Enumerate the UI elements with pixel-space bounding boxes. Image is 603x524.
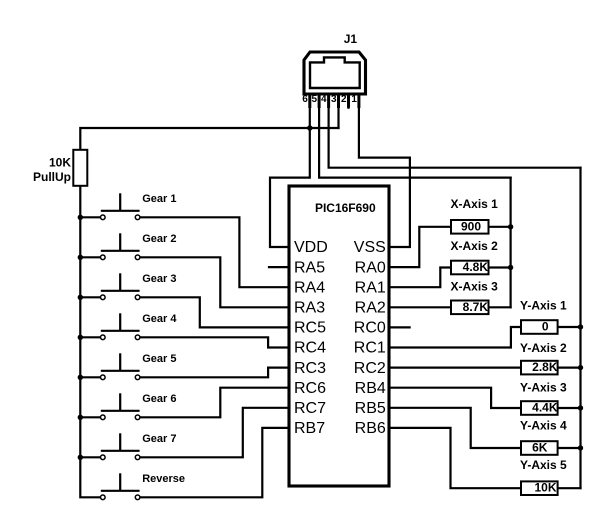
svg-text:X-Axis 2: X-Axis 2 <box>451 239 499 253</box>
switch Gear 3 <box>101 273 140 299</box>
svg-text:8.7K: 8.7K <box>463 300 489 314</box>
svg-text:RC1: RC1 <box>354 340 386 357</box>
resistor X-Axis 1 900 <box>451 220 489 234</box>
junction J1 pin 6 / pull-up net <box>307 125 312 130</box>
wire Gear 5 switch to pin RC3 <box>138 368 289 378</box>
svg-text:RA1: RA1 <box>355 279 386 296</box>
wire J1 pin 4 to Y-axis bus <box>329 94 581 168</box>
wire Gear 7 switch to pin RC7 <box>138 408 289 458</box>
svg-text:1: 1 <box>351 94 357 105</box>
resistor Y-Axis 5 10K <box>521 481 558 495</box>
junction bus / Gear 2 <box>78 255 83 260</box>
wire J1 pin 2 stub <box>347 94 349 108</box>
wire bus to Gear 5 switch <box>80 376 103 378</box>
wire Gear 1 switch to pin RA4 <box>138 217 289 287</box>
junction Y-axis bus / 0 <box>578 324 583 329</box>
wire resistor 4.4K to Y-axis bus <box>559 407 581 409</box>
svg-text:2.8K: 2.8K <box>532 360 558 374</box>
pin RA5 stub <box>269 266 289 268</box>
svg-text:Gear 2: Gear 2 <box>142 233 176 245</box>
junction Y-axis bus / 4.4K <box>578 405 583 410</box>
junction bus / Gear 4 <box>78 335 83 340</box>
svg-text:Gear 1: Gear 1 <box>142 193 176 205</box>
svg-text:RB5: RB5 <box>355 400 386 417</box>
wire pin RA2 to resistor 8.7K <box>389 306 451 308</box>
wire pin RA0 to resistor 900 <box>389 227 451 267</box>
svg-text:VDD: VDD <box>294 239 328 256</box>
svg-text:RC6: RC6 <box>294 380 326 397</box>
svg-text:PullUp: PullUp <box>33 170 71 184</box>
wire Gear 6 switch to pin RC6 <box>138 388 289 418</box>
switch Gear 1 <box>101 193 140 219</box>
pin RC0 stub <box>389 326 410 328</box>
wire resistor 10K to Y-axis bus <box>559 487 581 489</box>
switch common bus (pull-up bottom to Reverse) <box>80 186 103 497</box>
wire Gear 3 switch to pin RC5 <box>138 297 289 327</box>
wire pin RA1 to resistor 4.8K <box>389 268 451 288</box>
svg-text:RC3: RC3 <box>294 360 326 377</box>
wire J1 pin 5 to X-axis bus <box>319 94 511 178</box>
junction bus / Gear 7 <box>78 455 83 460</box>
svg-text:RA0: RA0 <box>355 259 386 276</box>
svg-text:RB7: RB7 <box>294 420 325 437</box>
svg-text:Y-Axis 2: Y-Axis 2 <box>520 341 567 355</box>
resistor pull-up 10K <box>73 150 87 186</box>
resistor X-Axis 2 4.8K <box>451 261 489 275</box>
svg-text:RA3: RA3 <box>294 300 325 317</box>
junction bus / Gear 5 <box>78 375 83 380</box>
svg-text:Y-Axis 1: Y-Axis 1 <box>520 298 567 312</box>
svg-text:Y-Axis 4: Y-Axis 4 <box>520 418 567 432</box>
svg-text:RB4: RB4 <box>355 380 386 397</box>
svg-text:RA2: RA2 <box>355 300 386 317</box>
wire resistor 8.7K to X-axis bus <box>488 306 511 308</box>
switch Gear 7 <box>101 433 140 459</box>
svg-text:6: 6 <box>302 94 308 105</box>
junction bus / Gear 6 <box>78 415 83 420</box>
svg-text:Gear 3: Gear 3 <box>142 273 176 285</box>
J1 pin stubs (pins 6-1) <box>310 94 359 108</box>
wire pin RC1 to resistor 0 <box>389 327 521 348</box>
wire resistor 6K to Y-axis bus <box>559 447 581 449</box>
svg-text:RC0: RC0 <box>354 320 386 337</box>
svg-text:Y-Axis 5: Y-Axis 5 <box>520 458 567 472</box>
svg-text:4: 4 <box>321 94 327 105</box>
svg-text:PIC16F690: PIC16F690 <box>315 201 376 215</box>
svg-text:10K: 10K <box>534 481 556 495</box>
junction Y-axis bus / 6K <box>578 445 583 450</box>
svg-text:Gear 5: Gear 5 <box>142 353 176 365</box>
svg-text:10K: 10K <box>49 155 71 169</box>
X-axis bus <box>510 178 512 308</box>
svg-text:X-Axis 3: X-Axis 3 <box>451 279 499 293</box>
wire J1 pin 6 to VDD <box>270 94 310 247</box>
junction X-axis bus / 900 <box>508 224 513 229</box>
svg-text:0: 0 <box>542 320 549 334</box>
wire resistor 2.8K to Y-axis bus <box>559 367 581 369</box>
junction bus / Gear 3 <box>78 295 83 300</box>
svg-text:4.8K: 4.8K <box>463 260 489 274</box>
svg-text:RB6: RB6 <box>355 420 386 437</box>
svg-text:Gear 4: Gear 4 <box>142 313 177 325</box>
wire resistor 900 to X-axis bus <box>488 226 511 228</box>
wire pull-up top to J1 pin 3 net <box>80 128 338 150</box>
resistor X-Axis 3 8.7K <box>451 301 489 315</box>
wire resistor 4.8K to X-axis bus <box>488 266 511 268</box>
switch Reverse <box>101 473 140 499</box>
wire pin RB6 to resistor 10K <box>389 428 521 488</box>
svg-text:RC7: RC7 <box>294 400 326 417</box>
svg-text:Reverse: Reverse <box>142 473 185 485</box>
svg-text:Y-Axis 3: Y-Axis 3 <box>520 381 567 395</box>
svg-text:Gear 6: Gear 6 <box>142 393 176 405</box>
svg-text:2: 2 <box>341 94 347 105</box>
svg-text:900: 900 <box>461 219 481 233</box>
svg-text:X-Axis 1: X-Axis 1 <box>451 197 499 211</box>
svg-text:3: 3 <box>331 94 337 105</box>
svg-text:Gear 7: Gear 7 <box>142 433 176 445</box>
resistor Y-Axis 2 2.8K <box>521 361 558 375</box>
wire Gear 2 switch to pin RA3 <box>138 257 289 307</box>
svg-text:RA4: RA4 <box>294 279 325 296</box>
wire resistor 0 to Y-axis bus <box>559 326 581 328</box>
resistor Y-Axis 1 0 <box>521 320 558 334</box>
wire bus to Gear 2 switch <box>80 256 103 258</box>
wire bus to Gear 1 switch <box>80 216 103 218</box>
svg-text:RC4: RC4 <box>294 340 326 357</box>
switch Gear 6 <box>101 393 140 419</box>
wire pin RC2 to resistor 2.8K <box>389 367 521 369</box>
wire J1 pin 3 <box>337 94 339 128</box>
switch Gear 5 <box>101 353 140 379</box>
svg-text:RC5: RC5 <box>294 320 326 337</box>
resistor Y-Axis 3 4.4K <box>521 401 558 415</box>
wire bus to Gear 3 switch <box>80 296 103 298</box>
wire J1 pin 1 to VSS <box>359 94 410 247</box>
svg-text:RC2: RC2 <box>354 360 386 377</box>
connector J1 body <box>304 52 366 94</box>
svg-text:4.4K: 4.4K <box>532 401 558 415</box>
Y-axis bus <box>579 168 581 489</box>
junction X-axis bus / 4.8K <box>508 265 513 270</box>
IC U1 PIC16F690 body <box>289 186 389 486</box>
switch Gear 4 <box>101 313 140 339</box>
wire Reverse switch to pin RB7 <box>138 428 289 497</box>
wire bus to Gear 6 switch <box>80 416 103 418</box>
wire bus to Gear 4 switch <box>80 336 103 338</box>
wire Gear 4 switch to pin RC4 <box>138 337 289 347</box>
wire bus to Gear 7 switch <box>80 456 103 458</box>
svg-text:6K: 6K <box>532 440 548 454</box>
junction Y-axis bus / 2.8K <box>578 365 583 370</box>
svg-text:RA5: RA5 <box>294 259 325 276</box>
svg-text:J1: J1 <box>344 32 358 46</box>
svg-text:5: 5 <box>312 94 318 105</box>
resistor Y-Axis 4 6K <box>521 441 558 455</box>
svg-text:VSS: VSS <box>354 239 386 256</box>
wire pin RB5 to resistor 6K <box>389 408 521 448</box>
wire pin RB4 to resistor 4.4K <box>389 388 521 408</box>
switch Gear 2 <box>101 233 140 259</box>
junction bus / Gear 1 <box>78 215 83 220</box>
